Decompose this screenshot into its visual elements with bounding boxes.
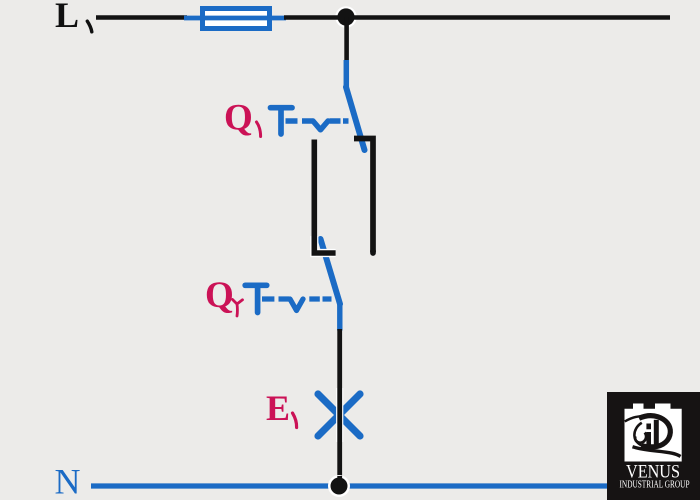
- wire right contact (corner shape): [354, 139, 373, 253]
- label E1: [266, 388, 297, 428]
- wire L1 top line black right segment: [284, 15, 670, 20]
- wire halo through lamp: [336, 388, 343, 442]
- node junction top: [337, 8, 354, 25]
- svg-text:L: L: [55, 0, 79, 35]
- svg-text:E: E: [266, 388, 290, 428]
- label Q2: [205, 275, 243, 316]
- label Q1: [224, 98, 261, 139]
- switch Q2 lever: [321, 239, 341, 304]
- fuse F1: [203, 9, 270, 29]
- switch Q1 linkage dashes: [286, 121, 349, 130]
- lamp E1 cross: [318, 394, 360, 436]
- wire Q2 common stub blue: [337, 302, 342, 331]
- logo monogram il bars: [649, 420, 657, 446]
- wire left contact (L-shape): [314, 140, 335, 254]
- wire Q2 to lamp black: [337, 329, 342, 480]
- wire fuse center line: [203, 16, 269, 21]
- logo monogram swirl ring: [625, 416, 681, 457]
- wire lamp lead over dot: [337, 476, 342, 486]
- wire left contact halo: [314, 236, 335, 253]
- svg-text:Q: Q: [224, 98, 253, 139]
- switch Q1 toggle T: [271, 108, 293, 134]
- wire drop from junction black: [344, 17, 349, 62]
- svg-text:N: N: [55, 462, 81, 500]
- svg-text:INDUSTRIAL GROUP: INDUSTRIAL GROUP: [620, 480, 690, 491]
- wire N line: [91, 483, 607, 488]
- switch Q2 toggle T: [245, 285, 267, 312]
- wire drop blue: [344, 60, 350, 87]
- node junction bottom: [328, 475, 350, 497]
- switch Q2 linkage dashes: [262, 299, 332, 311]
- label L1: [55, 0, 92, 35]
- logo panel: [607, 392, 700, 500]
- wire L1 top line black left segment: [96, 15, 187, 20]
- wire right contact tip: [370, 251, 376, 253]
- svg-text:Q: Q: [205, 275, 234, 316]
- switch Q1 lever: [346, 87, 365, 150]
- wire blue fuse lead: [184, 16, 286, 21]
- logo castle emblem: [625, 404, 682, 462]
- wire lamp lead over halo: [337, 388, 342, 442]
- node halo top: [335, 6, 357, 28]
